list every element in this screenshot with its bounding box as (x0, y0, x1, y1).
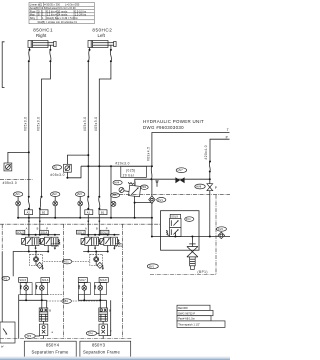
cylinder 850HC1 (28, 41, 56, 48)
oval tag BV1 (147, 264, 158, 269)
svg-text:#20x4.0: #20x4.0 (204, 145, 208, 160)
wire HPU supply header y236.5 (151, 233, 230, 238)
pilot dashed line row2 (19, 294, 63, 296)
svg-text:Separation Frame: Separation Frame (32, 349, 69, 354)
svg-text:HV4: HV4 (114, 181, 120, 185)
oval tag HV7 (176, 168, 186, 173)
HPU dashed enclosure (161, 211, 200, 251)
wire cross header y179 (151, 178, 210, 180)
svg-text:850HC2: 850HC2 (92, 28, 112, 33)
svg-text:#05x3.0: #05x3.0 (94, 117, 98, 132)
wire return header y166 (81, 165, 153, 167)
svg-text:TP4: TP4 (88, 331, 93, 335)
gauge PI2 at relief (119, 188, 129, 193)
label 850HC1 Right (33, 28, 53, 38)
svg-text:850Y3: 850Y3 (92, 343, 106, 348)
tag SOL9 (170, 214, 180, 218)
tag SOL2 (100, 230, 109, 234)
boundary dash-dot stub left (0, 179, 34, 181)
svg-text:le°: le° (1, 345, 4, 349)
svg-text:B1: B1 (101, 210, 105, 214)
svg-text:DWG 96752-P: DWG 96752-P (178, 311, 195, 315)
note vented to atm (right) (115, 241, 123, 248)
port tag A2 (25, 210, 33, 215)
svg-text:FC1: FC1 (186, 217, 191, 221)
svg-text:CV2: CV2 (218, 227, 224, 231)
svg-text:850HC1: 850HC1 (33, 28, 53, 33)
tank arrows under V3/V4 (34, 246, 56, 250)
svg-text:HV2: HV2 (52, 192, 58, 196)
wire valve V1/V2 work lines (83, 246, 109, 257)
boundary dash-dot HPU right (215, 195, 217, 275)
boundary dash-dot vertical right (122, 224, 124, 338)
hose lower A2 (28, 196, 30, 237)
tag SOL4 (40, 230, 49, 234)
svg-text:BV1: BV1 (149, 264, 154, 268)
svg-text:#09x4.5: #09x4.5 (147, 147, 151, 162)
wire pipe A (850HC1 rod side) (28, 61, 30, 197)
hose lower A1 (87, 196, 89, 237)
oval tag TP3 (25, 334, 40, 339)
tank arrows under V1/V2 (94, 246, 116, 250)
test point TP1 column (13, 192, 22, 218)
cylinder 850HC2 (88, 41, 116, 48)
boundary dash-dot vertical left (1, 224, 3, 252)
svg-text:HV1: HV1 (15, 192, 21, 196)
tag SOL1 (76, 230, 85, 234)
port tag B1 (99, 210, 107, 215)
wire right group lower circuit (79, 290, 111, 335)
hose T line (150, 166, 152, 180)
pilot dashed line with tag HB1 (47, 299, 100, 304)
svg-text:Linear dr: Linear dr (30, 3, 40, 7)
oval tag FC1 (185, 217, 194, 222)
svg-text:#05x3.0: #05x3.0 (24, 117, 28, 132)
svg-text:TP1: TP1 (2, 276, 7, 280)
svg-text:to atm: to atm (115, 244, 122, 248)
title table bottom right (177, 305, 225, 327)
counterbalance stack F3 (99, 308, 111, 321)
oval tag PR1 (140, 185, 148, 189)
shutoff valve HV8 (vertical bowtie on P) (207, 179, 217, 236)
tag SOL7 (78, 278, 87, 283)
svg-text:B: B (109, 308, 111, 312)
svg-text:Left: Left (98, 33, 106, 38)
svg-text:#05x3.0: #05x3.0 (50, 173, 65, 177)
svg-text:SOL3: SOL3 (17, 230, 24, 234)
svg-text:(025): (025) (126, 168, 136, 172)
svg-text:#05x3.0: #05x3.0 (83, 117, 87, 132)
wire P/T rail above valves (left group) (22, 234, 61, 236)
svg-text:T: T (227, 128, 229, 132)
svg-text:Ball #08: Ball #08 (178, 306, 188, 310)
hose P line (209, 161, 211, 180)
counterbalance stack F4 (99, 321, 112, 338)
oval tag PI1 (52, 165, 61, 170)
svg-text:HYDRAULIC POWER UNIT: HYDRAULIC POWER UNIT (143, 119, 204, 124)
boundary dash-dot vertical mid (62, 224, 64, 338)
solenoid valve 2 (100, 237, 120, 245)
pilot check CV3 (right group) (90, 254, 104, 270)
hose lower B1 (98, 196, 100, 235)
svg-text:SOL4: SOL4 (40, 230, 47, 234)
svg-text:A2: A2 (27, 210, 31, 214)
svg-text:SOL1: SOL1 (77, 230, 84, 234)
frame box 850Y4 (24, 341, 76, 357)
solenoid valve 3 (22, 237, 42, 245)
svg-text:1.2-24 l/m: 1.2-24 l/m (75, 12, 87, 16)
svg-text:CV1: CV1 (158, 198, 164, 202)
port tag B2 (40, 210, 48, 215)
wire gauge drain to return header (66, 166, 81, 179)
svg-text:HV7: HV7 (178, 168, 184, 172)
svg-text:20 bar: 20 bar (123, 173, 135, 177)
boundary dash-dot frames (0, 223, 160, 225)
wire P/T rail above valves (right group) (81, 234, 120, 236)
hose HC1 port B (49, 45, 51, 62)
svg-text:#05x3.0: #05x3.0 (3, 181, 18, 185)
tag SOL5 (19, 278, 28, 283)
port tag A1 (85, 210, 93, 215)
tag TP1 (2, 252, 24, 281)
solenoid valve 1 (81, 237, 101, 245)
needle valve NV1 (187, 237, 198, 270)
svg-text:(BP1): (BP1) (198, 270, 208, 274)
label 850HC2 Left (92, 28, 112, 38)
svg-text:A1: A1 (87, 210, 91, 214)
frame box 850Y3 (80, 341, 131, 357)
wire pipe A1 (850HC2 rod side) (87, 61, 89, 197)
svg-text:B: B (37, 227, 39, 231)
svg-text:Right: Right (36, 33, 47, 38)
svg-text:SOL2: SOL2 (101, 230, 108, 234)
cartridge valve C8 (94, 282, 106, 294)
svg-text:#05x3.0: #05x3.0 (36, 117, 40, 132)
svg-text:Thomapatch 1 1/2": Thomapatch 1 1/2" (178, 322, 200, 326)
wire T return line to HPU (152, 128, 230, 166)
counterbalance stack F2 (39, 321, 53, 338)
wire valve V3/V4 work lines (24, 246, 50, 257)
cartridge valve C6 (35, 282, 47, 294)
check valve CV1 on T column (149, 179, 155, 236)
svg-text:L=0.3m Ø35: L=0.3m Ø35 (65, 3, 80, 7)
cartridge valve C7 (78, 282, 90, 294)
pressure gauge PG1 (left) (4, 151, 30, 171)
label HYDRAULIC POWER UNIT (143, 119, 204, 130)
svg-text:PR1: PR1 (141, 185, 147, 189)
svg-text:Stby: Stby (30, 16, 36, 20)
oval tag CV1 (157, 198, 166, 203)
pressure gauge PG2 (right) (64, 154, 90, 172)
svg-text:# 50/35 x 300: # 50/35 x 300 (44, 3, 60, 7)
oval tag TP4 (86, 331, 99, 336)
counterbalance stack F1 (39, 308, 51, 321)
pilot dashed line with tag HG1 (44, 259, 90, 264)
svg-text:SOL6: SOL6 (42, 278, 49, 282)
svg-text:HV8: HV8 (196, 185, 202, 189)
test point TP2 column (51, 192, 60, 218)
pilot check CV2 (left group) (30, 254, 44, 270)
solenoid valve 4 (41, 237, 61, 245)
hose HC2 port B (110, 45, 112, 62)
oval tag HV8 (195, 184, 205, 189)
hose lower B2 (39, 196, 43, 235)
svg-text:P: P (226, 135, 229, 139)
wire pipe B (850HC1 cap side) with jog (42, 61, 51, 197)
window edge strip bottom (0, 357, 230, 360)
tank box bottom-left corner (0, 322, 15, 349)
check valve CV2 with tag (217, 227, 227, 239)
svg-text:Max: Max (30, 12, 36, 16)
svg-text:HB1: HB1 (63, 299, 69, 303)
svg-text:SOL7: SOL7 (79, 278, 86, 282)
boundary dash-dot HPU bottom (150, 274, 216, 276)
svg-text:B: B (49, 308, 51, 312)
svg-text:HV5: HV5 (112, 193, 118, 197)
proportional valve PV1 (166, 218, 181, 236)
svg-text:SOL5: SOL5 (19, 278, 26, 282)
boundary dash-dot HPU top (113, 194, 231, 196)
cartridge valve C5 (20, 282, 32, 294)
tank drain arrow T (155, 181, 158, 187)
data table (cylinder sizing table, top left) (29, 2, 94, 24)
detail bracket at left edge (2, 42, 4, 88)
hose HC1 port A (28, 48, 31, 63)
svg-text:850Y4: 850Y4 (46, 343, 60, 348)
svg-text:SOL8: SOL8 (100, 278, 107, 282)
tag SOL8 (99, 278, 108, 283)
svg-text:#20x3.0: #20x3.0 (115, 162, 129, 166)
wire test/drain header y218 (17, 217, 153, 219)
relief valve PR1 (025) 20 bar (121, 166, 152, 196)
svg-text:TP3: TP3 (26, 334, 31, 338)
svg-text:Ret(A) flow x 0.49 = 5.0 l/m: Ret(A) flow x 0.49 = 5.0 l/m (47, 16, 78, 20)
wire P pressure line from HPU (210, 135, 230, 161)
node column T4 with tags (110, 166, 122, 218)
svg-text:PI1: PI1 (54, 165, 58, 169)
note vented to atm (left) (52, 241, 60, 248)
svg-text:B: B (96, 227, 98, 231)
svg-text:B2: B2 (42, 210, 46, 214)
wire pipe B1 (850HC2 cap side) with jog (99, 61, 111, 197)
shutoff valve HV7 (horizontal bowtie) (175, 177, 184, 183)
svg-text:HV3: HV3 (77, 192, 83, 196)
tag SOL3 (16, 230, 25, 234)
svg-text:Ret(B) = stroke min 10 s/strok: Ret(B) = stroke min 10 s/stroke ±1 (38, 20, 78, 24)
wire relief drain (134, 196, 153, 217)
test point TP3 column (76, 192, 85, 218)
hose HC2 port A (87, 48, 90, 63)
svg-text:DWG #960303030: DWG #960303030 (143, 125, 184, 130)
svg-text:Separation Frame: Separation Frame (83, 349, 120, 354)
svg-text:P: P (215, 186, 218, 190)
svg-text:Part# AB 1.5m: Part# AB 1.5m (178, 317, 195, 321)
wire left group lower circuit (19, 290, 47, 338)
svg-text:HG1: HG1 (63, 260, 69, 264)
svg-text:1.2 l/m = 24 mm/s: 1.2 l/m = 24 mm/s (47, 12, 68, 16)
port letters (26, 221, 108, 231)
svg-text:A: A (26, 227, 28, 231)
boundary dash-dot above frame boxes (0, 338, 132, 340)
tag SOL6 (41, 278, 50, 283)
